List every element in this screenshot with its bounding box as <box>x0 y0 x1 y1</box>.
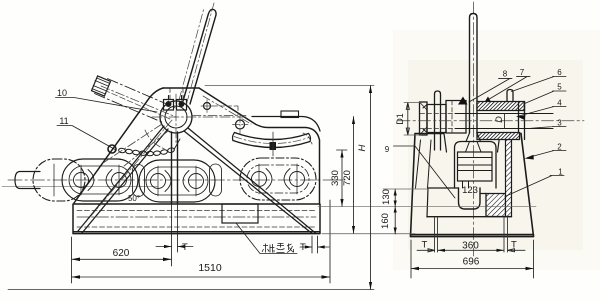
svg-text:T: T <box>511 240 517 251</box>
weld mark right <box>483 97 493 105</box>
lever shaft front <box>470 14 478 134</box>
boss hidden lines <box>451 101 453 134</box>
svg-text:4: 4 <box>557 99 562 108</box>
chain link L2 stud <box>165 171 189 192</box>
hub outer <box>160 101 192 133</box>
svg-text:10: 10 <box>57 88 67 98</box>
gland top hatched band <box>477 102 525 111</box>
cavity bottom line <box>427 216 512 218</box>
wedge block hatched <box>486 194 506 217</box>
node: phantom link eye tick <box>53 164 55 196</box>
T gauge right <box>312 236 318 253</box>
svg-text:T: T <box>300 242 306 253</box>
dim D1 <box>406 103 409 136</box>
clamp pins <box>169 96 182 101</box>
curved guide slot <box>235 133 309 140</box>
lever arm <box>183 9 216 104</box>
svg-text:130: 130 <box>381 189 392 205</box>
pawl hidden lines <box>103 124 168 166</box>
leader 11 <box>57 126 116 151</box>
svg-text:5: 5 <box>557 83 562 92</box>
notch to block step <box>480 193 486 195</box>
frame left slope edge <box>74 88 163 203</box>
leader 2 with arrow <box>528 151 566 158</box>
slot pin <box>270 142 277 150</box>
svg-text:1: 1 <box>558 168 563 177</box>
left flange plate <box>420 102 428 135</box>
dim 330 <box>337 150 348 207</box>
cavity left ledge <box>428 187 459 189</box>
cross link junction J1 <box>133 165 145 197</box>
cavity left wall <box>427 188 428 217</box>
chain link L1 outer <box>62 159 138 201</box>
hidden pawl edge <box>213 106 238 115</box>
leader 4 with arrow <box>517 107 566 117</box>
shared ext line y207 <box>318 206 536 208</box>
leader 6 <box>512 77 567 92</box>
ext y233.5 <box>322 233 415 235</box>
T gauge rv left <box>417 249 435 252</box>
svg-text:8: 8 <box>503 70 508 79</box>
svg-text:330: 330 <box>330 170 341 186</box>
label biaozhichu (marking place) <box>262 243 294 253</box>
trip chain to hub <box>174 139 180 150</box>
right wall hatched column <box>506 140 512 217</box>
leader 7 <box>489 77 531 100</box>
slot centerline <box>234 137 309 144</box>
svg-text:T: T <box>422 240 428 251</box>
marking leader <box>236 223 297 254</box>
stop block on plate <box>281 111 299 118</box>
left frame leg (double) <box>78 126 168 233</box>
svg-text:50°: 50° <box>128 194 140 203</box>
chain pipe line <box>2 186 158 188</box>
svg-text:9: 9 <box>385 145 390 154</box>
hub inner <box>165 106 187 128</box>
top pin <box>507 90 513 102</box>
phantom lever lines <box>108 79 177 108</box>
lever phantom alt <box>179 8 204 100</box>
dim 360 <box>438 249 505 251</box>
weld mark left <box>458 97 468 105</box>
boss lower taper <box>466 133 481 142</box>
svg-text:3: 3 <box>557 119 562 128</box>
clamp bolt left <box>166 101 172 107</box>
window block <box>458 152 493 181</box>
dim 720 <box>353 117 355 234</box>
bracket plate <box>427 105 446 133</box>
T gauge rv right <box>508 249 526 252</box>
window opening <box>455 142 497 189</box>
dim 1510 <box>72 200 331 283</box>
svg-text:7: 7 <box>520 68 525 77</box>
svg-text:6: 6 <box>557 68 562 77</box>
cross link junction J2 <box>210 164 222 196</box>
hidden bore in bracket <box>420 114 455 129</box>
svg-text:1510: 1510 <box>198 262 222 274</box>
bore lines <box>455 114 553 129</box>
chain link L1 stud <box>88 170 112 191</box>
chain centerline ext <box>330 179 345 181</box>
chain centerline <box>8 179 345 181</box>
hidden line hub to plate <box>192 115 246 117</box>
clamp bolt right <box>179 101 185 107</box>
pedestal outline <box>411 134 534 237</box>
chain end rod <box>15 172 40 189</box>
lever centerline <box>187 3 215 104</box>
marking box on base <box>222 204 258 223</box>
inner wall slants <box>416 140 432 188</box>
bolt slot right <box>504 217 508 252</box>
release hook bolt <box>108 145 116 153</box>
hub centerlines <box>152 116 246 118</box>
leader 10 <box>56 98 158 113</box>
phantom chain link (dash-dot oval) <box>33 159 85 201</box>
svg-text:D: D <box>494 116 504 123</box>
left leg centerline <box>80 120 172 229</box>
chain link L2 eyes <box>151 174 166 189</box>
chain link L3 stud <box>266 169 290 190</box>
lever hidden root <box>170 88 183 103</box>
dim 696 <box>411 240 534 278</box>
lock pin bar <box>435 91 441 150</box>
svg-text:620: 620 <box>113 248 130 259</box>
vertical centerline <box>473 2 475 256</box>
svg-text:T: T <box>182 242 188 253</box>
dim 620 ext right <box>172 204 178 266</box>
floor line <box>8 289 374 291</box>
svg-text:123: 123 <box>462 185 478 196</box>
phantom lever position cap <box>92 76 111 96</box>
chain link L2 outer <box>139 160 215 202</box>
bolt hole A <box>204 103 211 110</box>
leader 1 <box>505 176 564 197</box>
dim 130/160 <box>394 189 396 234</box>
svg-text:H: H <box>357 144 368 151</box>
neck sides <box>444 134 500 153</box>
svg-text:720: 720 <box>342 170 353 186</box>
pedestal top edge <box>415 133 521 135</box>
lever boss <box>446 101 466 134</box>
center strut (double) <box>172 132 178 204</box>
chain link L2 inner <box>146 167 208 195</box>
chain link L1 inner <box>69 166 131 194</box>
chain link L1 eyes <box>74 173 89 188</box>
svg-text:160: 160 <box>380 213 391 229</box>
base hidden lines <box>77 210 316 212</box>
T gauge left <box>156 246 193 248</box>
svg-text:360: 360 <box>462 241 479 252</box>
leader 3 <box>528 127 566 129</box>
frame apex plateau <box>163 87 199 89</box>
dim 620 <box>72 237 172 283</box>
bolt B <box>236 120 245 129</box>
pedestal bottom edge <box>411 235 534 237</box>
leader 9 <box>394 146 456 198</box>
chain link L3 eyes <box>252 172 267 187</box>
base plate <box>73 204 320 234</box>
trip chain <box>118 147 175 156</box>
clamp block right <box>177 100 187 111</box>
shaft centerline <box>398 120 584 122</box>
svg-text:D1: D1 <box>395 113 405 125</box>
corner hidden arc <box>303 133 312 144</box>
bolt slot left <box>435 217 438 252</box>
bracket chamfers <box>423 105 427 133</box>
svg-text:696: 696 <box>463 257 480 268</box>
hub pitch arc <box>145 130 165 149</box>
end cap <box>519 102 525 140</box>
dim D <box>504 114 506 129</box>
outer cheek plate top edge <box>252 117 320 132</box>
slope hidden line <box>203 96 251 124</box>
right frame leg (double) <box>184 128 316 234</box>
chain link L3 outer phantom <box>240 158 316 200</box>
frame right slope edge <box>199 88 320 204</box>
chain link L3 inner <box>247 165 309 193</box>
clamp block left <box>164 100 174 111</box>
dim H <box>205 85 374 87</box>
leader 5 <box>524 91 567 104</box>
svg-text:2: 2 <box>557 143 562 152</box>
leader 8 <box>469 78 512 102</box>
gland bottom hatched band <box>477 133 520 140</box>
U notch 123 <box>459 188 481 209</box>
svg-text:11: 11 <box>59 116 68 126</box>
